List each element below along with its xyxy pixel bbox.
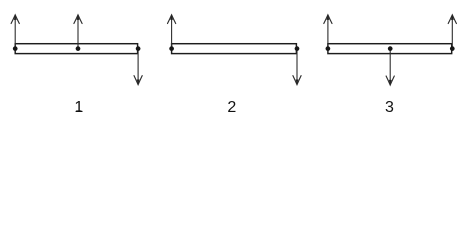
beam 3 right up force arrow bbox=[448, 15, 456, 49]
beam 2 bar bbox=[172, 44, 297, 54]
beam 2 left pivot dot bbox=[169, 46, 174, 51]
label 3 bbox=[385, 99, 394, 116]
beam 1 left up force arrow bbox=[11, 15, 19, 49]
beam 3 middle down force arrow bbox=[386, 49, 394, 86]
beam 3 left up force arrow bbox=[324, 15, 332, 49]
beam 3 right pivot dot bbox=[450, 46, 455, 51]
svg-text:2: 2 bbox=[227, 99, 236, 116]
beam 1 right pivot dot bbox=[136, 46, 141, 51]
svg-text:1: 1 bbox=[74, 99, 83, 116]
label 2 bbox=[227, 99, 236, 116]
beam 1 middle up force arrow bbox=[74, 15, 82, 49]
beam 1 left pivot dot bbox=[13, 46, 18, 51]
beam 3 left pivot dot bbox=[326, 46, 331, 51]
beam 3 bar bbox=[328, 44, 452, 54]
beam 1 bar bbox=[15, 44, 137, 54]
beam 2 left up force arrow bbox=[168, 15, 176, 49]
beam 1 middle pivot dot bbox=[76, 46, 81, 51]
label 1 bbox=[74, 99, 83, 116]
beam 2 right pivot dot bbox=[295, 46, 300, 51]
beam 3 middle pivot dot bbox=[388, 46, 393, 51]
svg-text:3: 3 bbox=[385, 99, 394, 116]
beam 1 right down force arrow bbox=[134, 49, 142, 85]
beam 2 right down force arrow bbox=[293, 49, 301, 85]
